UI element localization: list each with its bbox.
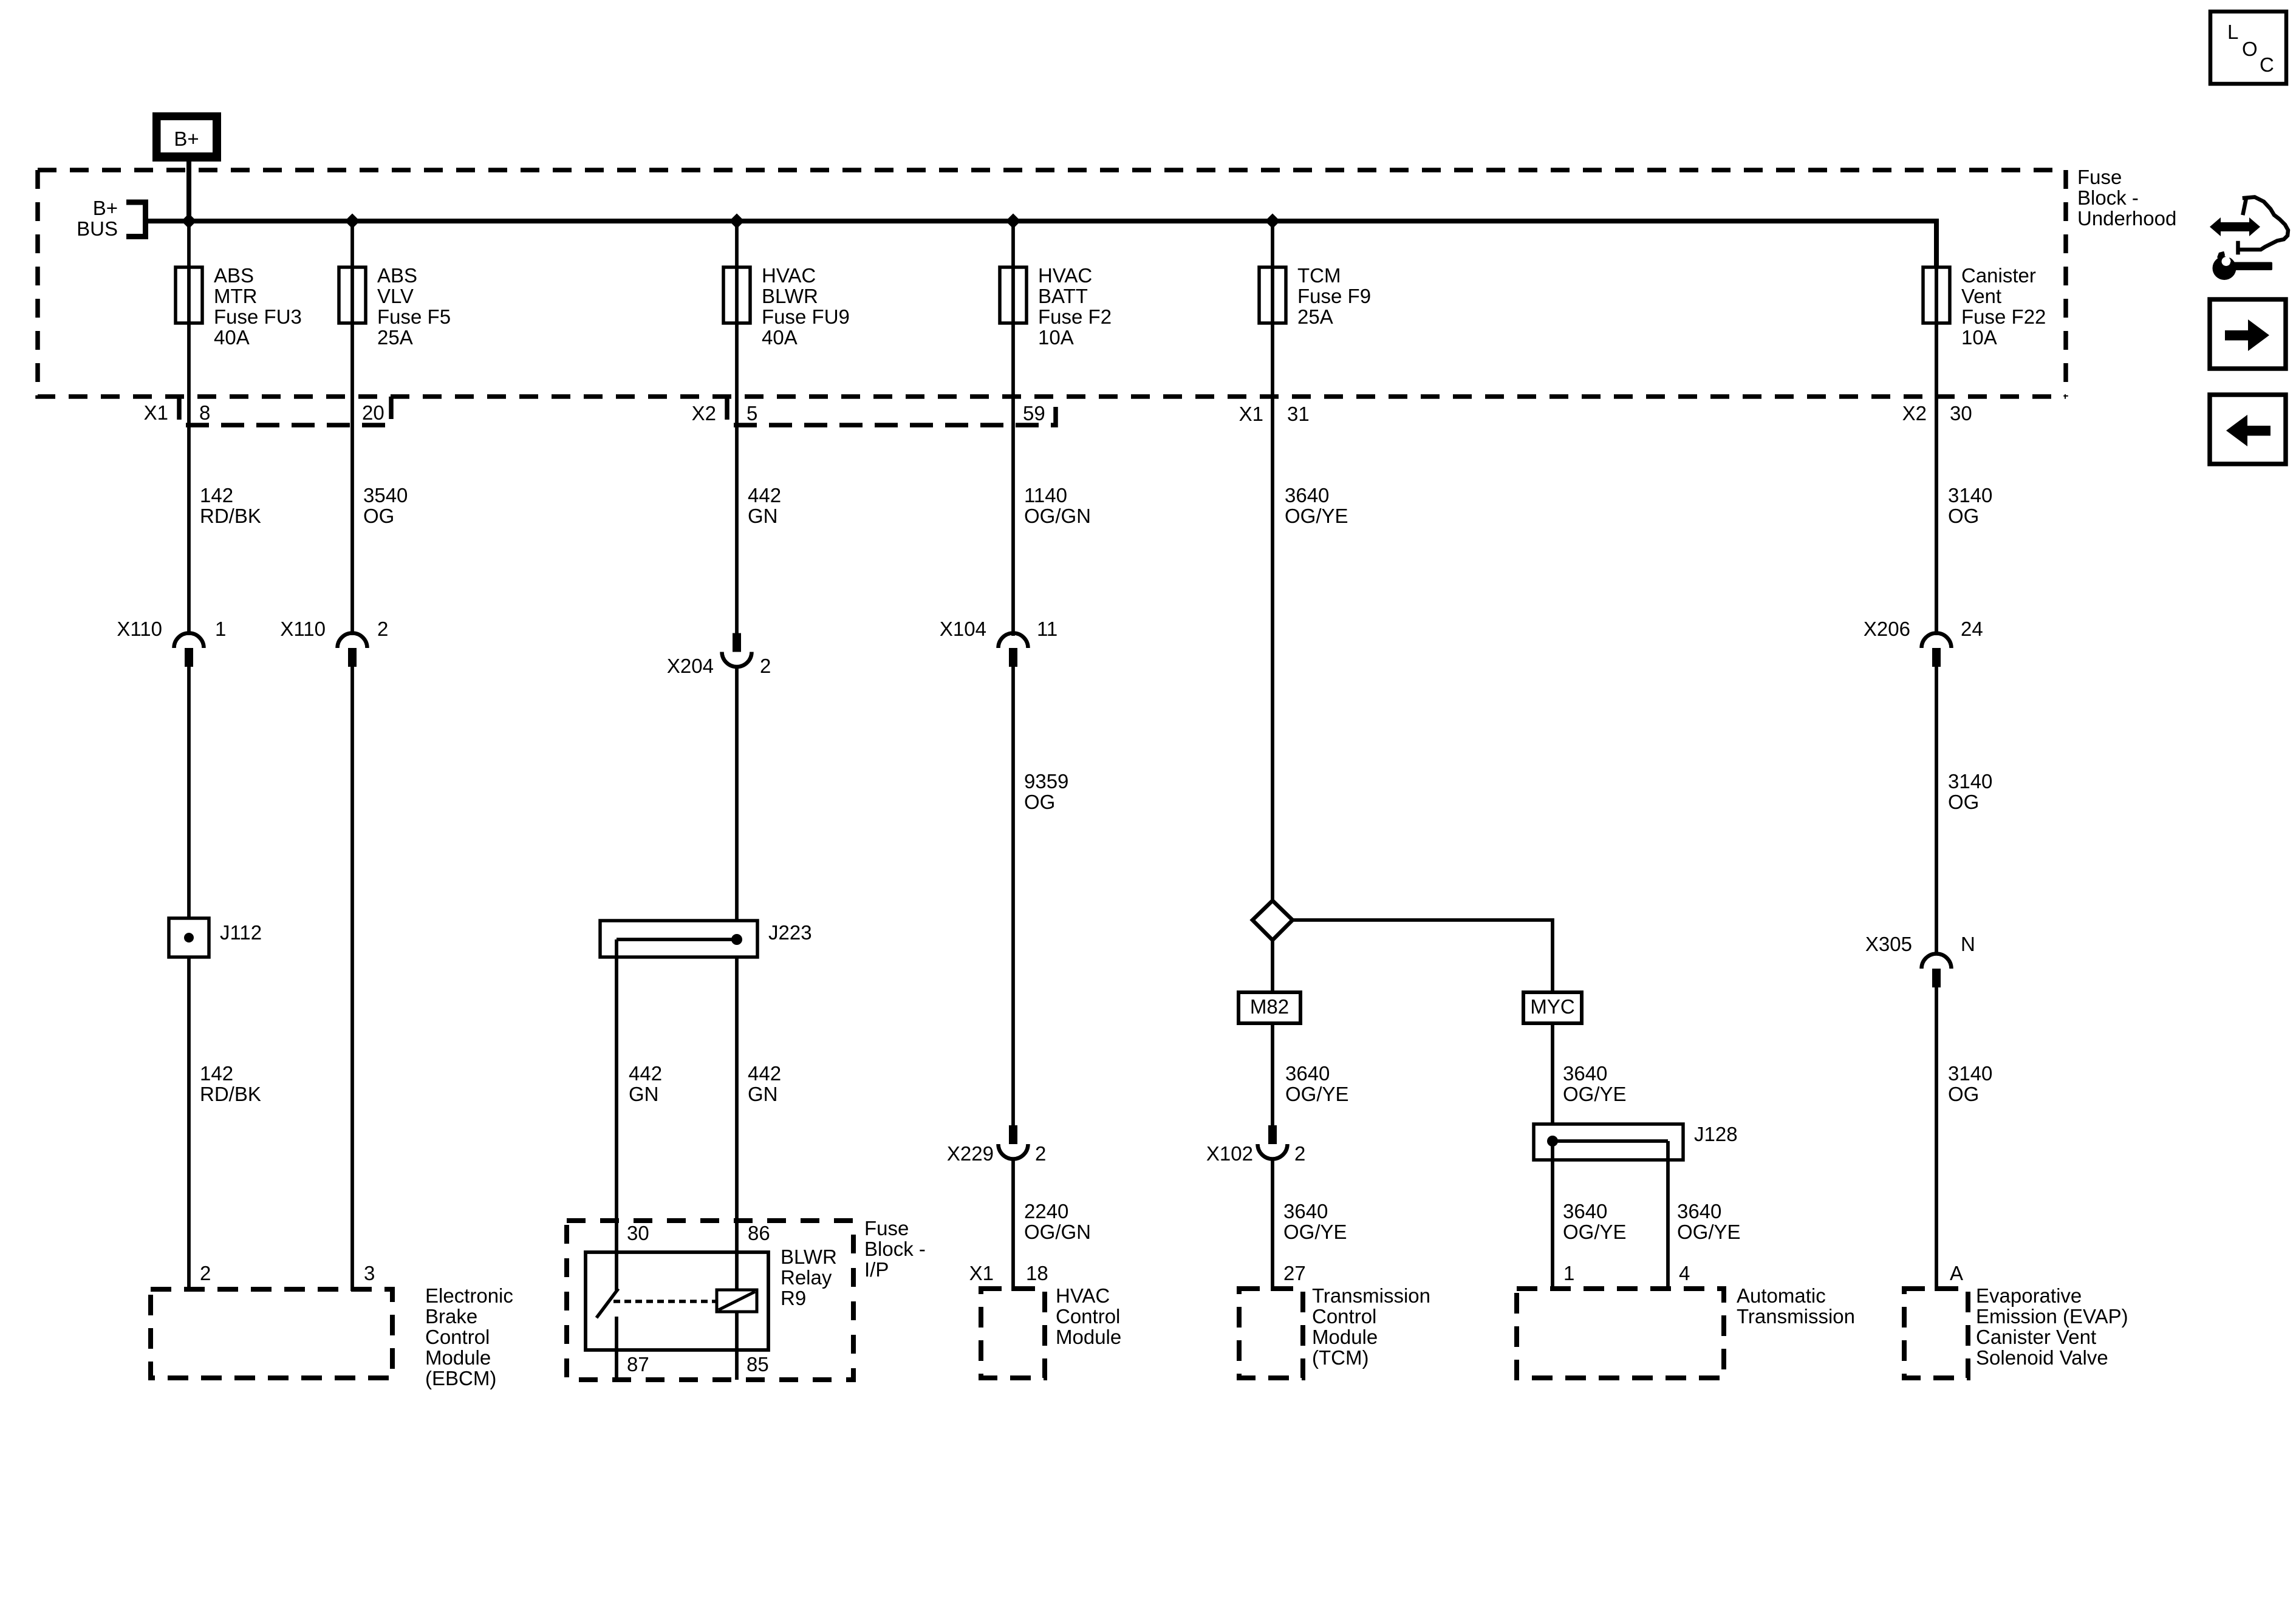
relay actuator dashed link	[613, 1300, 717, 1303]
wire 2240 OG/GN segment	[1011, 1158, 1015, 1291]
svg-text:ABS: ABS	[214, 264, 254, 287]
svg-text:40A: 40A	[762, 326, 798, 349]
svg-text:Block -: Block -	[864, 1238, 926, 1260]
svg-text:Control: Control	[1056, 1305, 1120, 1328]
wire fuse F22 to connector X206	[1935, 265, 1938, 635]
wire 3540 OG segment	[350, 666, 354, 1291]
wire coil top	[735, 1251, 739, 1290]
connector X1 (fuse block) dashed outline	[179, 397, 391, 425]
svg-text:3640: 3640	[1563, 1200, 1607, 1222]
junction on B+ bus at x=2095	[1265, 214, 1280, 229]
relay BLWR R9 box	[586, 1252, 768, 1350]
splice J112	[169, 918, 209, 957]
svg-text:1: 1	[215, 618, 226, 640]
svg-text:C: C	[2260, 53, 2274, 76]
svg-text:B+: B+	[93, 197, 118, 219]
svg-text:X1: X1	[144, 401, 168, 424]
svg-text:BLWR: BLWR	[762, 285, 818, 307]
fuse F9 TCM 25A	[1259, 267, 1286, 323]
wire bus to connector X204	[735, 221, 739, 634]
relay pin87 stub	[615, 1317, 618, 1350]
svg-text:X1: X1	[969, 1262, 994, 1284]
wire 3640 OG/YE segment	[1551, 1023, 1554, 1124]
svg-text:2: 2	[760, 655, 771, 677]
svg-text:Block -: Block -	[2077, 186, 2139, 209]
svg-text:X110: X110	[117, 618, 162, 640]
fuse FU3 ABS MTR 40A	[176, 267, 202, 323]
wire B+ feed drop	[186, 162, 191, 223]
svg-text:3140: 3140	[1948, 484, 1992, 506]
svg-text:HVAC: HVAC	[1056, 1284, 1110, 1307]
connector X305 pin N	[1922, 954, 1952, 969]
svg-text:9359: 9359	[1024, 770, 1068, 792]
svg-text:24: 24	[1961, 618, 1983, 640]
svg-text:Fuse F2: Fuse F2	[1038, 305, 1112, 328]
svg-text:442: 442	[629, 1062, 662, 1085]
svg-text:TCM: TCM	[1297, 264, 1341, 287]
svg-text:10A: 10A	[1038, 326, 1074, 349]
svg-text:40A: 40A	[214, 326, 250, 349]
svg-text:BATT: BATT	[1038, 285, 1088, 307]
wire 142 RD/BK segment	[187, 957, 191, 1291]
svg-text:RD/BK: RD/BK	[200, 1083, 261, 1105]
wire bus to connector X110-2	[350, 221, 354, 635]
icon hood outline	[2238, 197, 2289, 253]
wire 3640 OG/YE segment	[1271, 1158, 1274, 1291]
svg-text:OG: OG	[1948, 1083, 1979, 1105]
junction on B+ bus at x=311	[182, 214, 197, 229]
connector X102 pin 2	[1268, 1125, 1277, 1144]
svg-text:OG/YE: OG/YE	[1285, 1083, 1349, 1105]
bracket for B+ BUS	[126, 202, 146, 237]
battery feed B+ symbol	[152, 112, 221, 162]
svg-text:X204: X204	[667, 655, 714, 677]
svg-text:4: 4	[1679, 1262, 1690, 1284]
svg-text:25A: 25A	[377, 326, 413, 349]
svg-text:11: 11	[1037, 618, 1057, 640]
wire 3140 OG segment	[1935, 986, 1938, 1291]
junction on B+ bus at x=1213	[729, 214, 745, 229]
svg-text:3: 3	[364, 1262, 375, 1284]
svg-text:Vent: Vent	[1961, 285, 2001, 307]
svg-text:Control: Control	[1312, 1305, 1376, 1328]
svg-text:OG/GN: OG/GN	[1024, 1221, 1091, 1243]
svg-text:J128: J128	[1694, 1123, 1738, 1145]
svg-text:N: N	[1961, 933, 1975, 955]
svg-text:A: A	[1950, 1262, 1963, 1284]
relay switch pin30 stub	[615, 1251, 618, 1290]
svg-text:Module: Module	[425, 1346, 491, 1369]
svg-text:O: O	[2242, 38, 2258, 60]
module HVAC Control Module dashed box	[981, 1289, 1045, 1378]
icon hood double arrow	[2210, 217, 2260, 236]
fuse FU9 HVAC BLWR 40A	[723, 267, 750, 323]
svg-text:OG/YE: OG/YE	[1677, 1221, 1741, 1243]
svg-text:VLV: VLV	[377, 285, 414, 307]
svg-text:3640: 3640	[1283, 1200, 1328, 1222]
svg-text:3640: 3640	[1285, 1062, 1330, 1085]
svg-text:3640: 3640	[1285, 484, 1329, 506]
svg-text:MTR: MTR	[214, 285, 257, 307]
fuse F5 ABS VLV 25A	[339, 267, 366, 323]
fuse F2 HVAC BATT 10A	[1000, 267, 1027, 323]
svg-text:20: 20	[362, 401, 384, 424]
relay coil	[717, 1290, 757, 1312]
wire bus to connector X104	[1011, 221, 1015, 636]
svg-text:2: 2	[377, 618, 388, 640]
wire bus to connector X110-1	[187, 221, 191, 635]
junction on B+ bus at x=580	[345, 214, 360, 229]
svg-text:Module: Module	[1312, 1326, 1378, 1348]
icon forward arrow box	[2210, 299, 2286, 369]
svg-text:OG/YE: OG/YE	[1563, 1083, 1627, 1105]
svg-text:87: 87	[627, 1353, 649, 1375]
svg-text:Fuse: Fuse	[864, 1217, 909, 1239]
connector X104 pin 11	[999, 633, 1028, 648]
svg-text:3540: 3540	[363, 484, 408, 506]
connector X110 pin 1	[174, 633, 204, 648]
svg-text:Electronic: Electronic	[425, 1284, 513, 1307]
wire 3640 OG/YE left branch	[1551, 1141, 1554, 1291]
svg-text:OG/YE: OG/YE	[1283, 1221, 1347, 1243]
svg-text:X305: X305	[1865, 933, 1912, 955]
wire branch to MYC	[1293, 920, 1553, 990]
svg-text:Fuse F5: Fuse F5	[377, 305, 451, 328]
svg-text:Evaporative: Evaporative	[1976, 1284, 2082, 1307]
wire B+ bus	[148, 221, 1936, 268]
svg-text:OG/YE: OG/YE	[1563, 1221, 1627, 1243]
svg-text:59: 59	[1023, 402, 1045, 424]
connector X110 pin 2	[338, 633, 367, 648]
svg-text:Control: Control	[425, 1326, 490, 1348]
svg-text:HVAC: HVAC	[1038, 264, 1092, 287]
svg-text:3640: 3640	[1677, 1200, 1721, 1222]
fuse block underhood dashed box	[38, 170, 2066, 397]
svg-text:X229: X229	[947, 1142, 994, 1165]
wire 3640 OG/YE right branch	[1666, 1141, 1670, 1291]
svg-text:Brake: Brake	[425, 1305, 477, 1328]
wire 3640 OG/YE segment	[1271, 940, 1274, 992]
svg-text:L: L	[2227, 21, 2238, 43]
svg-text:Fuse F22: Fuse F22	[1961, 305, 2046, 328]
svg-text:ABS: ABS	[377, 264, 417, 287]
icon wrench	[2213, 251, 2273, 280]
wire 142 RD/BK segment	[187, 666, 191, 918]
svg-text:Module: Module	[1056, 1326, 1121, 1348]
svg-text:Underhood: Underhood	[2077, 207, 2176, 230]
svg-text:3140: 3140	[1948, 1062, 1992, 1085]
icon LOC box	[2210, 12, 2286, 84]
svg-text:X104: X104	[940, 618, 986, 640]
svg-text:5: 5	[747, 402, 757, 424]
svg-text:Canister Vent: Canister Vent	[1976, 1326, 2096, 1348]
svg-text:MYC: MYC	[1530, 995, 1574, 1018]
wire relay 87	[615, 1350, 618, 1380]
svg-text:X110: X110	[280, 618, 326, 640]
svg-text:142: 142	[200, 1062, 233, 1085]
svg-text:GN: GN	[629, 1083, 659, 1105]
svg-text:J112: J112	[220, 921, 262, 944]
svg-text:30: 30	[1950, 402, 1972, 424]
svg-text:GN: GN	[748, 505, 778, 527]
relay switch blade	[596, 1289, 618, 1318]
svg-text:Fuse F9: Fuse F9	[1297, 285, 1371, 307]
splice J128	[1534, 1124, 1683, 1160]
wire 442 GN through splice	[735, 957, 739, 1253]
svg-text:OG/GN: OG/GN	[1024, 505, 1091, 527]
svg-text:3140: 3140	[1948, 770, 1992, 792]
svg-text:27: 27	[1283, 1262, 1306, 1284]
splice diamond node	[1252, 901, 1293, 940]
svg-text:HVAC: HVAC	[762, 264, 816, 287]
svg-text:OG: OG	[1948, 505, 1979, 527]
svg-text:Automatic: Automatic	[1737, 1284, 1826, 1307]
svg-text:Fuse FU9: Fuse FU9	[762, 305, 850, 328]
connector X229 pin 2	[1009, 1125, 1017, 1144]
svg-text:X102: X102	[1206, 1142, 1253, 1165]
svg-text:18: 18	[1026, 1262, 1048, 1284]
fuse block I/P dashed box	[567, 1221, 853, 1380]
svg-text:(TCM): (TCM)	[1312, 1346, 1368, 1369]
svg-text:OG/YE: OG/YE	[1285, 505, 1348, 527]
svg-text:8: 8	[199, 401, 210, 424]
svg-text:2: 2	[1035, 1142, 1046, 1165]
svg-text:Emission (EVAP): Emission (EVAP)	[1976, 1305, 2128, 1328]
svg-text:31: 31	[1287, 403, 1310, 425]
svg-text:Canister: Canister	[1961, 264, 2036, 287]
icon back arrow box	[2210, 395, 2286, 464]
svg-text:Transmission: Transmission	[1737, 1305, 1855, 1328]
svg-text:OG: OG	[363, 505, 394, 527]
svg-text:442: 442	[748, 484, 781, 506]
wire 3640 OG/YE segment	[1271, 1023, 1274, 1125]
svg-text:J223: J223	[768, 921, 812, 944]
svg-text:X2: X2	[1902, 402, 1927, 424]
svg-text:X206: X206	[1864, 618, 1910, 640]
svg-text:OG: OG	[1948, 791, 1979, 813]
svg-text:442: 442	[748, 1062, 781, 1085]
module TCM dashed box	[1239, 1289, 1303, 1378]
connector X204 pin 2	[733, 633, 741, 652]
wire bus to diamond splice	[1271, 221, 1274, 902]
svg-text:Solenoid Valve: Solenoid Valve	[1976, 1346, 2108, 1369]
svg-text:Transmission: Transmission	[1312, 1284, 1430, 1307]
svg-text:142: 142	[200, 484, 233, 506]
module Automatic Transmission dashed box	[1517, 1289, 1724, 1378]
svg-text:Fuse FU3: Fuse FU3	[214, 305, 302, 328]
svg-text:Relay: Relay	[781, 1266, 832, 1289]
svg-text:GN: GN	[748, 1083, 778, 1105]
splice MYC	[1523, 992, 1582, 1023]
svg-text:2: 2	[1294, 1142, 1305, 1165]
svg-text:85: 85	[747, 1353, 769, 1375]
svg-text:B+: B+	[174, 128, 199, 150]
svg-text:RD/BK: RD/BK	[200, 505, 261, 527]
svg-text:OG: OG	[1024, 791, 1055, 813]
svg-text:BLWR: BLWR	[781, 1246, 837, 1268]
svg-text:M82: M82	[1250, 995, 1289, 1018]
svg-text:R9: R9	[781, 1287, 806, 1309]
svg-text:2: 2	[200, 1262, 211, 1284]
svg-text:25A: 25A	[1297, 305, 1333, 328]
svg-text:X1: X1	[1239, 403, 1263, 425]
fuse F22 Canister Vent 10A	[1923, 267, 1950, 323]
svg-text:2240: 2240	[1024, 1200, 1068, 1222]
svg-text:1: 1	[1563, 1262, 1574, 1284]
wire 3140 OG segment	[1935, 666, 1938, 955]
splice J223	[600, 921, 757, 957]
wire 9359 OG segment	[1011, 666, 1015, 1125]
wire 442 GN left branch	[615, 939, 618, 1253]
svg-text:86: 86	[748, 1222, 770, 1244]
svg-text:Fuse: Fuse	[2077, 166, 2122, 188]
wire relay 85	[735, 1312, 739, 1380]
module EBCM dashed box	[151, 1289, 392, 1378]
splice M82	[1239, 992, 1300, 1023]
svg-text:(EBCM): (EBCM)	[425, 1367, 496, 1389]
svg-text:X2: X2	[692, 402, 716, 424]
svg-text:1140: 1140	[1024, 484, 1067, 506]
svg-text:10A: 10A	[1961, 326, 1997, 349]
svg-text:30: 30	[627, 1222, 649, 1244]
connector X206 pin 24	[1922, 633, 1952, 648]
module EVAP Canister Vent Solenoid Valve dashed box	[1904, 1289, 1968, 1378]
svg-text:BUS: BUS	[77, 217, 118, 240]
svg-text:I/P: I/P	[864, 1258, 889, 1281]
svg-text:3640: 3640	[1563, 1062, 1607, 1085]
junction on B+ bus at x=1668	[1006, 214, 1021, 229]
wire 442 GN segment	[735, 666, 739, 921]
connector X2 (fuse block) dashed outline	[727, 397, 1056, 425]
